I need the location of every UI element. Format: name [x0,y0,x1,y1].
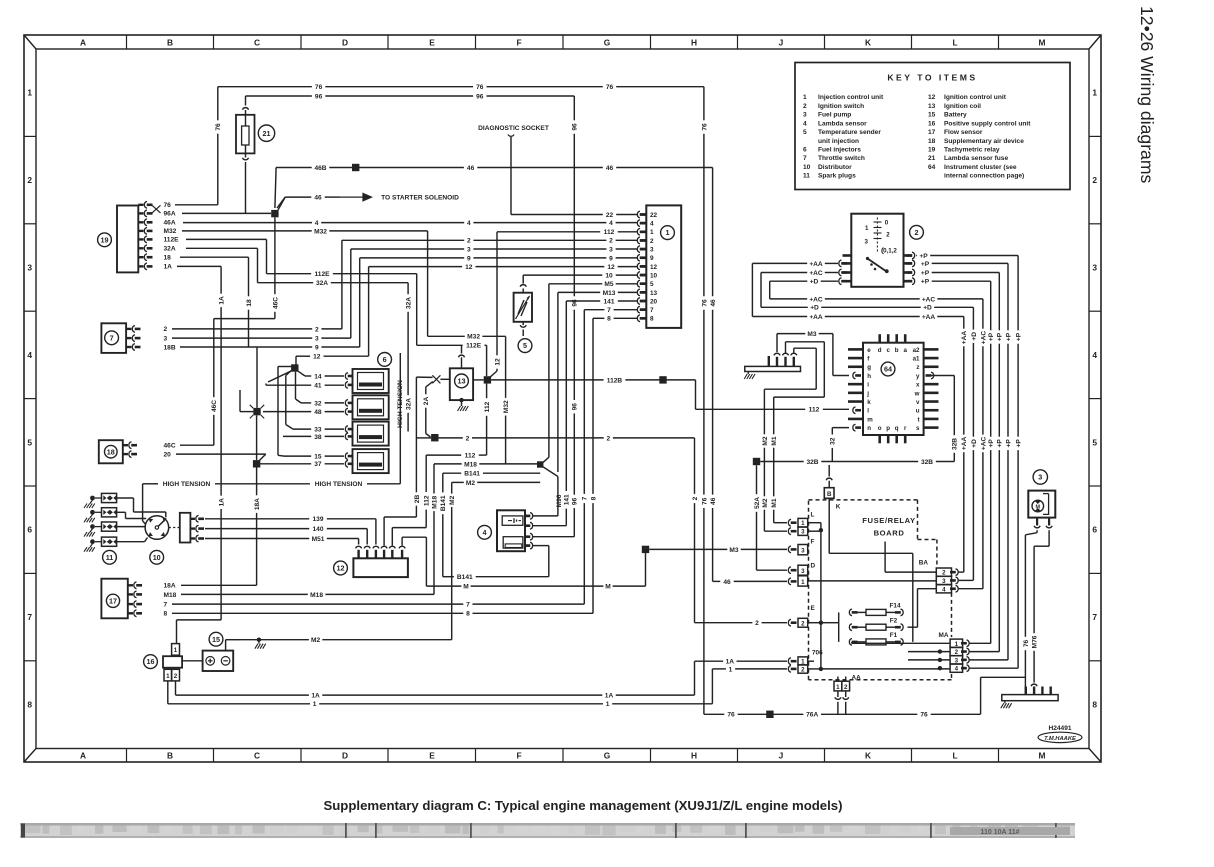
balloon 1 [661,226,675,240]
svg-text:L: L [952,751,957,761]
svg-text:46C: 46C [164,443,176,450]
svg-text:112E: 112E [466,343,482,350]
wire 112 unit1 pin1 [490,229,638,377]
svg-text:3: 3 [609,246,613,253]
wire net 12 upper [369,264,638,356]
svg-text:1: 1 [606,701,610,708]
svg-text:4: 4 [803,120,807,127]
svg-text:C: C [254,38,260,48]
wire M51 [205,536,359,545]
wire net M32 mid [428,231,510,464]
svg-text:FUSE/RELAY: FUSE/RELAY [862,516,915,525]
wire +AA switch [752,261,838,317]
wire M18 row [164,592,435,599]
svg-text:Fuel injectors: Fuel injectors [818,147,861,154]
wire net 46B/46 [275,164,717,582]
wire M13 [558,290,638,516]
svg-text:M76: M76 [1032,635,1039,648]
svg-text:3: 3 [27,263,32,273]
wire net M3 to fuse board F [649,546,796,554]
balloon 7 [105,331,119,345]
svg-text:s: s [916,425,920,432]
wire 15 feed [278,367,344,461]
wire 141 [564,298,638,525]
wire net M3 cluster [777,331,849,376]
wire net 2 lower [164,326,342,333]
balloon 2 [910,225,924,239]
wire +P 3 [921,270,1004,652]
svg-text:10: 10 [153,553,161,562]
svg-text:w: w [914,390,920,397]
svg-text:46: 46 [723,579,731,586]
wire 7 upper [582,307,638,604]
svg-text:T.M.HAAKE: T.M.HAAKE [1044,736,1077,742]
coil primary splice X [432,375,449,383]
svg-text:1: 1 [166,673,170,680]
svg-text:18: 18 [928,138,936,145]
svg-text:2: 2 [606,435,610,442]
svg-text:L: L [952,38,957,48]
svg-text:112: 112 [424,495,431,506]
splice X at relay pin 76/96A [152,205,161,213]
svg-text:4: 4 [27,350,32,360]
svg-text:3: 3 [803,112,807,119]
svg-text:+P: +P [921,261,930,268]
svg-text:Injection control unit: Injection control unit [818,94,884,101]
svg-text:12•26 Wiring diagrams: 12•26 Wiring diagrams [1137,6,1157,183]
wire 139 [205,516,376,544]
svg-text:+AA: +AA [961,436,968,450]
positive supply control unit 16 [163,644,182,681]
svg-text:18A: 18A [254,498,261,510]
svg-text:+P: +P [988,439,995,448]
svg-text:5: 5 [523,341,527,350]
svg-text:M2: M2 [449,495,456,504]
svg-text:H24491: H24491 [1048,725,1071,732]
svg-text:+P: +P [921,270,930,277]
svg-text:B: B [167,38,173,48]
svg-text:Flow sensor: Flow sensor [944,129,983,136]
fuel injector 6.2 [345,395,388,419]
svg-text:76: 76 [701,123,708,131]
wire net 12 lower [296,354,369,365]
svg-text:z: z [916,364,919,371]
wire +D lower [761,305,978,581]
wire 22 socket to unit 1 [511,214,603,216]
svg-text:21: 21 [928,155,936,162]
svg-text:j: j [866,390,869,397]
svg-text:D: D [811,563,816,570]
svg-text:M3: M3 [807,331,816,338]
svg-text:HIGH TENSION: HIGH TENSION [163,481,211,488]
svg-text:2: 2 [803,103,807,110]
svg-text:3: 3 [164,335,168,342]
wire net 96 run [246,93,579,536]
svg-text:x: x [916,382,920,389]
flow sensor 17 [101,579,142,619]
spark plug leads [117,498,166,542]
svg-text:32: 32 [830,437,837,445]
spark plug 11.4 [84,537,117,552]
svg-text:38: 38 [314,434,322,441]
svg-text:4: 4 [650,221,654,228]
svg-text:32A: 32A [406,398,413,410]
svg-text:K: K [865,751,871,761]
svg-text:76: 76 [215,123,222,131]
svg-text:Fuel pump: Fuel pump [818,112,851,119]
svg-text:1: 1 [666,228,670,237]
junction square coil output [473,376,491,383]
svg-text:M2: M2 [311,637,320,644]
svg-text:+D: +D [810,305,819,312]
svg-text:D: D [342,38,348,48]
instrument cluster 64 [848,334,939,443]
wire row 112 mid [392,453,486,546]
svg-text:2: 2 [915,228,919,237]
svg-text:+AC: +AC [980,331,987,345]
svg-text:4: 4 [955,666,959,673]
wire net 96A [182,212,271,214]
svg-text:e: e [867,347,871,354]
svg-text:76: 76 [164,202,172,209]
wire +AC switch [761,270,838,307]
svg-text:Ignition coil: Ignition coil [944,103,981,110]
spark plug 11.2 [84,508,117,523]
wire row M [402,537,645,590]
wire +P 2 [921,261,1013,660]
key to items box [795,63,1070,190]
throttle switch 7 [101,323,140,353]
svg-text:m: m [867,416,873,423]
wire 7 row [164,602,585,609]
svg-text:M18: M18 [164,592,177,599]
svg-text:+P: +P [1005,332,1012,341]
fuel injector 6.3 [345,422,388,446]
svg-text:2: 2 [755,620,759,627]
balloon 21 [258,125,274,141]
svg-text:10: 10 [650,272,658,279]
MA output wires [969,643,1018,668]
svg-text:8: 8 [650,316,654,323]
svg-text:2: 2 [315,326,319,333]
svg-text:M32: M32 [314,228,327,235]
svg-text:1: 1 [1092,88,1097,98]
wire 706-2 row [712,666,796,674]
svg-text:46: 46 [314,195,322,202]
svg-text:4: 4 [609,220,613,227]
wire M5 [549,281,638,457]
svg-text:G: G [604,38,611,48]
svg-text:F: F [811,539,815,546]
svg-text:+P: +P [1016,332,1023,341]
svg-text:2: 2 [801,620,805,627]
svg-text:l: l [867,408,869,415]
board internal wiring [808,498,937,642]
fuse F2 [849,618,903,631]
svg-text:19: 19 [928,147,936,154]
svg-text:J: J [779,38,784,48]
wire 33 feed [286,371,344,434]
svg-text:112E: 112E [314,271,330,278]
connector D [798,563,816,587]
svg-text:B141: B141 [440,495,447,511]
svg-text:1A: 1A [726,659,735,666]
svg-text:Tachymetric relay: Tachymetric relay [944,147,1000,154]
wire +P 4 [921,279,995,644]
svg-text:15: 15 [314,454,322,461]
svg-text:96: 96 [315,93,323,100]
wire net M2 row [226,637,452,651]
svg-text:141: 141 [603,298,614,305]
balloon 6 [378,353,392,367]
svg-text:9: 9 [650,255,654,262]
svg-text:52A: 52A [754,497,761,509]
cluster ground [747,372,749,375]
wire row 1A bottom [176,661,695,699]
coil ground [461,404,463,407]
svg-text:F14: F14 [889,603,900,610]
svg-text:2: 2 [801,667,805,674]
svg-text:8: 8 [466,611,470,618]
svg-text:76: 76 [701,299,708,307]
svg-text:1: 1 [729,666,733,673]
fuel injector 6.1 [345,369,388,393]
svg-text:DIAGNOSTIC SOCKET: DIAGNOSTIC SOCKET [478,125,549,132]
board pin K [824,465,840,511]
svg-text:+P: +P [997,332,1004,341]
battery ground [258,641,260,644]
wire 38 feed [283,434,344,441]
svg-text:6: 6 [27,525,32,535]
svg-text:32A: 32A [316,280,328,287]
svg-text:8: 8 [607,316,611,323]
spark plug 11.3 [84,522,117,537]
svg-text:M32: M32 [164,228,177,235]
svg-text:1A: 1A [164,264,173,271]
wire net 32B [753,376,959,466]
svg-text:18A: 18A [164,583,176,590]
svg-text:1: 1 [650,229,654,236]
svg-text:12: 12 [494,358,501,366]
svg-text:a1: a1 [913,355,920,362]
wire 18A row [164,583,257,590]
svg-text:BOARD: BOARD [874,529,905,538]
svg-text:76: 76 [727,712,735,719]
svg-text:F: F [516,751,521,761]
svg-text:b: b [895,347,899,354]
svg-text:46: 46 [710,299,717,307]
cluster ground bar [745,353,801,371]
svg-text:Ignition control unit: Ignition control unit [944,94,1007,101]
svg-text:7: 7 [607,307,611,314]
svg-text:139: 139 [312,516,323,523]
svg-text:i: i [867,382,869,389]
svg-text:Supplementary diagram C: Typi: Supplementary diagram C: Typical engine … [323,798,842,813]
wire row 1 bottom [168,669,713,708]
svg-text:E: E [429,751,435,761]
svg-text:112: 112 [604,229,615,236]
wire 46 to D1 [713,578,797,586]
wire net 4 / 46A [183,220,638,227]
svg-text:0: 0 [885,220,889,227]
svg-text:12: 12 [650,264,658,271]
lambda pin wires [533,516,574,577]
wire 41 feed [266,371,344,390]
svg-text:G: G [604,751,611,761]
balloon 5 [518,339,532,353]
svg-text:8: 8 [1092,700,1097,710]
connector F [798,539,815,555]
svg-text:6: 6 [383,355,387,364]
svg-text:12: 12 [465,264,473,271]
svg-text:Distributor: Distributor [818,164,852,171]
svg-text:17: 17 [109,596,117,605]
wire net 52A [754,465,797,573]
svg-text:20: 20 [164,452,172,459]
svg-text:8: 8 [27,700,32,710]
svg-text:76: 76 [701,497,708,505]
svg-text:1: 1 [865,225,869,232]
fuse F14 [849,603,903,616]
balloon 10 [150,550,164,564]
svg-text:46B: 46B [314,165,326,172]
svg-text:B: B [167,751,173,761]
wire 10 temp sender to unit1 [520,273,638,287]
svg-text:10: 10 [605,273,613,280]
svg-text:Lambda sensor fuse: Lambda sensor fuse [944,155,1008,162]
svg-text:16: 16 [928,120,936,127]
svg-text:M: M [605,584,611,591]
svg-text:48: 48 [314,409,322,416]
svg-text:13: 13 [650,290,658,297]
svg-text:M2: M2 [762,436,769,445]
svg-text:D: D [342,751,348,761]
wire row B141 lower [443,574,549,581]
wire 46 to starter solenoid [277,193,459,208]
svg-text:A: A [80,751,86,761]
svg-text:7: 7 [110,333,114,342]
svg-text:+AC: +AC [980,436,987,450]
svg-text:3: 3 [865,238,869,245]
svg-text:22: 22 [606,212,614,219]
svg-text:1: 1 [174,647,178,654]
connector 706 [798,650,823,674]
svg-text:3: 3 [467,246,471,253]
wire +AC lower [770,296,988,588]
svg-text:+AC: +AC [922,296,936,303]
svg-text:1A: 1A [219,498,226,507]
svg-text:8: 8 [164,611,168,618]
relay 19 pin labels [164,202,180,271]
wire row M2 mid [449,480,540,640]
diagnostic socket [478,125,549,215]
svg-text:2: 2 [609,238,613,245]
svg-text:M3: M3 [729,547,738,554]
svg-text:1: 1 [801,579,805,586]
svg-text:M13: M13 [603,290,616,297]
svg-text:112B: 112B [607,377,623,384]
junction square A [291,364,298,371]
svg-text:11: 11 [803,173,810,180]
ground bottom right [1004,701,1006,704]
svg-text:Positive supply control unit: Positive supply control unit [944,120,1031,127]
balloon 12 [334,561,348,575]
svg-text:7: 7 [27,612,32,622]
injection control unit 1 [637,205,681,328]
balloon 16 [144,655,158,669]
svg-text:q: q [895,425,899,432]
svg-text:76: 76 [920,712,928,719]
svg-text:+P: +P [997,439,1004,448]
svg-text:HIGH TENSION: HIGH TENSION [315,481,363,488]
svg-text:M1: M1 [771,498,778,507]
svg-text:4: 4 [467,220,471,227]
svg-text:B: B [827,491,832,498]
wire +P 1 [916,253,1023,668]
balloon 19 [98,233,112,247]
svg-text:+AA: +AA [961,331,968,345]
wire net 3 upper [351,246,638,338]
svg-text:h: h [867,373,871,380]
wire net 112 drop to row [484,384,491,456]
wire net 18A [254,468,261,586]
svg-text:2: 2 [650,238,654,245]
battery 15 [182,651,233,671]
fuel injector 6.4 [345,449,388,473]
svg-text:C: C [254,751,260,761]
svg-text:2B: 2B [414,495,421,504]
svg-text:2: 2 [466,435,470,442]
wire net 32A [186,248,413,431]
svg-text:5: 5 [803,129,807,136]
svg-text:8: 8 [590,496,597,500]
svg-text:11: 11 [106,553,114,562]
svg-text:1: 1 [801,520,805,527]
wire 20 device 18 [164,452,266,459]
svg-text:7: 7 [466,602,470,609]
high tension row [143,481,401,524]
svg-text:1: 1 [313,701,317,708]
svg-text:M2: M2 [762,498,769,507]
ignition coil 13 [450,345,473,404]
svg-text:12: 12 [928,94,936,101]
svg-text:p: p [886,425,890,432]
svg-text:MA: MA [939,632,949,639]
svg-text:AA: AA [852,675,862,682]
wire net M1 [771,342,824,526]
svg-text:Ignition switch: Ignition switch [818,103,864,110]
svg-text:17: 17 [928,129,936,136]
svg-text:2: 2 [692,496,699,500]
svg-text:g: g [867,364,871,371]
svg-text:+P: +P [1016,439,1023,448]
wire net 2 upper [342,238,638,329]
wire row B141 mid [440,471,540,577]
svg-text:HIGH TENSION: HIGH TENSION [397,380,404,428]
svg-text:7: 7 [582,496,589,500]
svg-text:+P: +P [919,253,928,260]
svg-text:3: 3 [1038,473,1042,482]
ground bar bottom right [1002,687,1058,701]
svg-text:d: d [878,347,882,354]
ignition control unit 12 [353,546,408,577]
svg-text:64: 64 [928,164,936,171]
svg-text:2: 2 [164,326,168,333]
high tension line vertical [397,353,404,484]
svg-text:KEY TO ITEMS: KEY TO ITEMS [887,73,977,83]
wire 32 feed [296,372,345,408]
svg-text:internal connection page): internal connection page) [944,173,1024,180]
